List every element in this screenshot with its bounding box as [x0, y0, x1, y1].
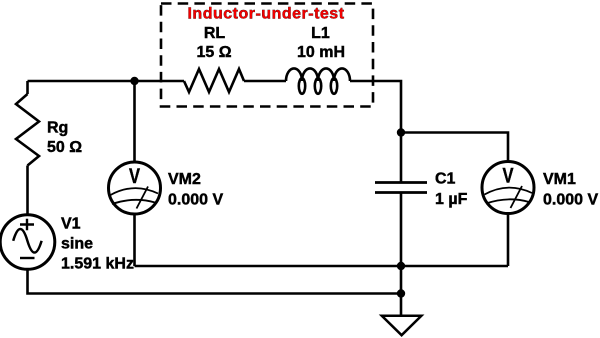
source V1	[0, 215, 55, 270]
node junction dot on rail 1	[397, 262, 405, 270]
wire VM2 bottom	[133, 214, 136, 266]
wire VM2 top	[133, 81, 136, 163]
wire left rail top (corner to Rg)	[26, 81, 29, 94]
svg-text:Rg: Rg	[47, 120, 68, 137]
node junction dot mid-right	[397, 128, 405, 136]
svg-text:C1: C1	[435, 171, 456, 188]
wire between RL and L1	[244, 80, 286, 83]
svg-text:1 µF: 1 µF	[435, 191, 468, 208]
svg-text:sine: sine	[61, 236, 93, 253]
wire ground stem	[400, 294, 403, 316]
wire bottom rail 1 (VM2 to VM1)	[135, 265, 509, 268]
ground	[382, 316, 422, 335]
svg-text:Inductor-under-test: Inductor-under-test	[187, 6, 344, 23]
svg-text:L1: L1	[311, 25, 330, 42]
svg-text:0.000 V: 0.000 V	[543, 192, 598, 209]
svg-text:V1: V1	[61, 216, 81, 233]
svg-text:V: V	[503, 164, 515, 188]
wire node to C1 top plate	[400, 133, 403, 183]
wire VM1 bottom	[507, 214, 510, 267]
wire node to VM1 top	[401, 133, 508, 162]
wire top-left horizontal (node left to RL)	[28, 80, 185, 83]
svg-text:10 mH: 10 mH	[297, 44, 345, 61]
svg-text:0.000 V: 0.000 V	[168, 192, 223, 209]
dashed box (Inductor-under-test enclosure)	[161, 4, 373, 107]
svg-text:V: V	[129, 164, 141, 188]
resistor Rg	[16, 94, 39, 166]
node junction dot on rail 2	[397, 289, 405, 297]
svg-text:1.591 kHz: 1.591 kHz	[61, 256, 134, 273]
voltmeter VM1	[482, 162, 534, 214]
svg-text:15 Ω: 15 Ω	[196, 44, 231, 61]
resistor RL	[184, 69, 244, 92]
capacitor C1	[375, 183, 427, 193]
svg-text:VM1: VM1	[543, 171, 576, 188]
wire Rg to V1	[26, 166, 29, 216]
svg-text:VM2: VM2	[168, 171, 201, 188]
wire between rails	[400, 266, 403, 294]
voltmeter VM2	[109, 162, 161, 214]
svg-text:50 Ω: 50 Ω	[47, 139, 82, 156]
svg-text:RL: RL	[204, 25, 226, 42]
wire C1 bottom	[400, 193, 403, 267]
node junction dot top (VM2 tap)	[130, 77, 138, 85]
inductor L1	[286, 68, 350, 93]
wire V1 bottom to bottom rail	[28, 269, 402, 293]
wire L1 to right corner, down to node	[350, 81, 401, 133]
